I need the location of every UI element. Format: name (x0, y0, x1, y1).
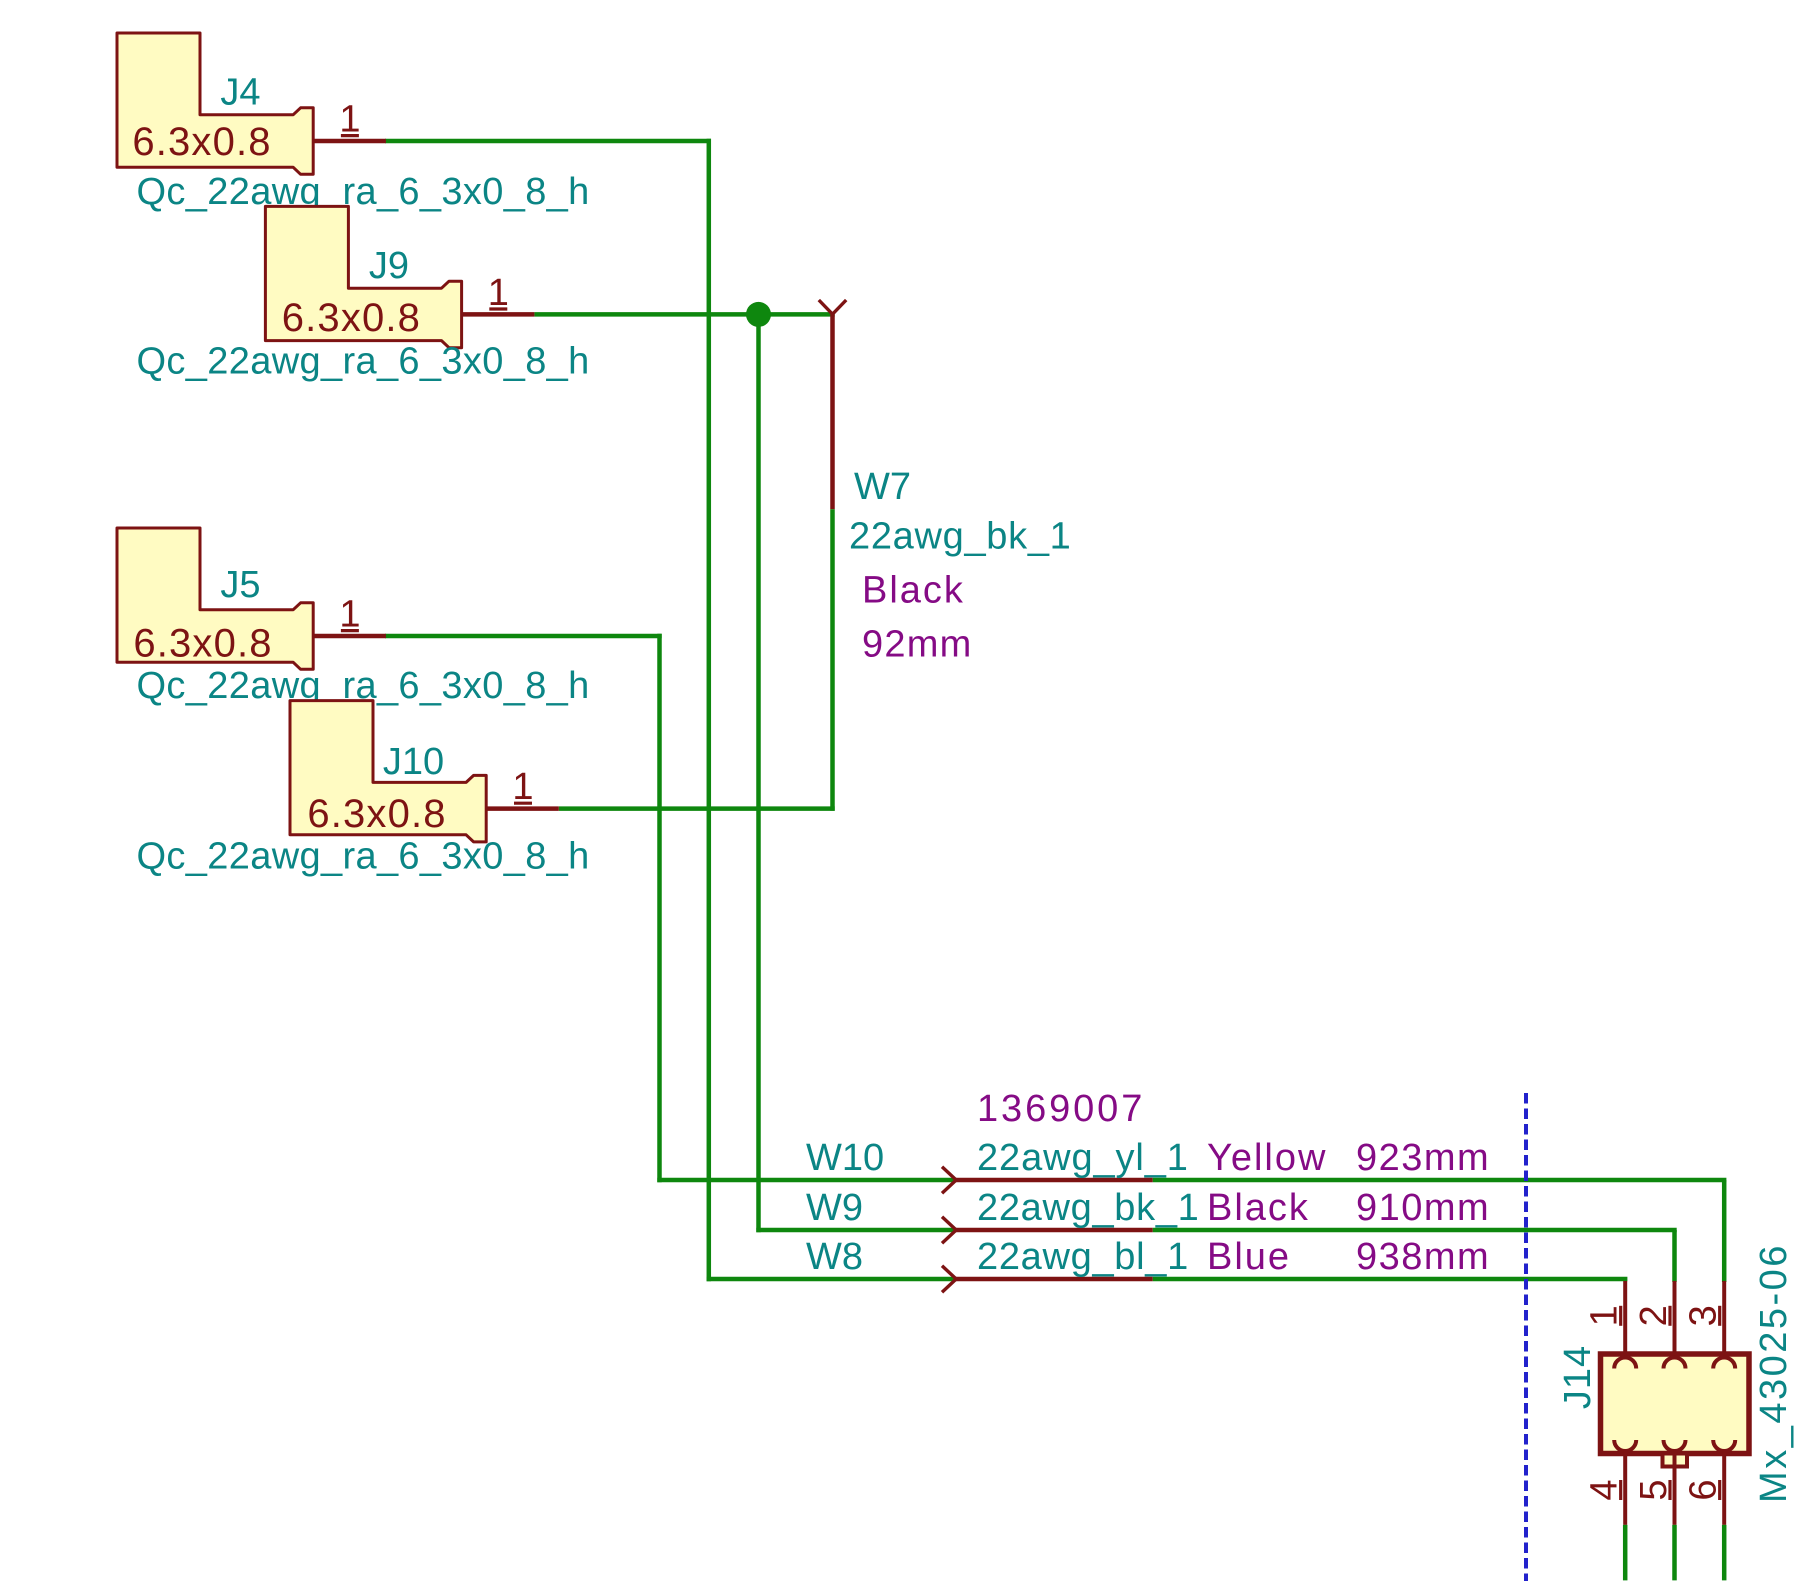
connector J14 pin2 red vertical (1673, 1281, 1677, 1358)
J14 pin number 1 underline (1619, 1306, 1622, 1326)
J14 pin number 6 underline (1718, 1480, 1721, 1500)
connector J10 body (290, 701, 486, 842)
J9 pin pigtail red (462, 312, 535, 317)
svg-text:92mm: 92mm (862, 623, 973, 665)
svg-text:22awg_yl_1: 22awg_yl_1 (977, 1137, 1189, 1179)
wire end marker W8 (942, 1266, 956, 1292)
svg-text:6.3x0.8: 6.3x0.8 (133, 622, 272, 666)
svg-text:938mm: 938mm (1356, 1236, 1490, 1278)
svg-text:Yellow: Yellow (1207, 1137, 1327, 1179)
wire J4 pin1 horizontal (385, 139, 711, 144)
connector J14 pin4 red vertical (1623, 1451, 1627, 1525)
svg-text:910mm: 910mm (1356, 1187, 1490, 1229)
J14 pin number 2 underline (1668, 1306, 1671, 1326)
wire W10 red segment (955, 1178, 1153, 1183)
wire W9 horizontal right green (1153, 1228, 1677, 1233)
svg-text:Mx_43025-06: Mx_43025-06 (1753, 1243, 1795, 1503)
wire J14 pin2 vertical green (1672, 1230, 1677, 1282)
svg-text:6.3x0.8: 6.3x0.8 (132, 120, 271, 164)
J14 pin number 4 underline (1619, 1480, 1622, 1500)
svg-text:J5: J5 (220, 564, 260, 606)
wire end marker W7 (819, 300, 846, 314)
svg-text:Blue: Blue (1207, 1236, 1291, 1278)
wire end marker W9 (942, 1217, 956, 1243)
connector J14 body (1601, 1354, 1750, 1454)
wire W8 horizontal right green (1153, 1277, 1628, 1282)
J14 pin4 socket arc (1614, 1440, 1636, 1451)
wire J14 pin5 green vertical (1672, 1525, 1677, 1581)
svg-text:W10: W10 (806, 1137, 884, 1179)
connector J5 body (117, 528, 313, 669)
svg-text:J4: J4 (220, 72, 260, 114)
wire J9 pin1 horizontal (534, 312, 834, 317)
J10 pin pigtail red (486, 806, 559, 811)
wire J10 pin1 horizontal green (559, 806, 835, 811)
wire W7 green vertical (830, 509, 835, 811)
svg-text:6.3x0.8: 6.3x0.8 (307, 792, 446, 836)
svg-text:Black: Black (862, 570, 965, 612)
junction dot (746, 302, 771, 327)
svg-text:Qc_22awg_ra_6_3x0_8_h: Qc_22awg_ra_6_3x0_8_h (137, 836, 590, 878)
wire junction vertical down to W9 (756, 314, 761, 1232)
svg-text:J10: J10 (383, 741, 444, 783)
wire W9 red segment (955, 1228, 1153, 1233)
harness boundary dashed line (1524, 1093, 1528, 1581)
J14 pin3 socket arc (1713, 1358, 1735, 1369)
svg-text:923mm: 923mm (1356, 1137, 1490, 1179)
svg-text:22awg_bk_1: 22awg_bk_1 (849, 516, 1072, 558)
J14 pin5 polarization notch (1663, 1454, 1688, 1467)
J9 pin number underline (489, 307, 507, 310)
J5 pin pigtail red (313, 634, 386, 639)
wire J14 pin6 green vertical (1722, 1525, 1727, 1581)
svg-text:22awg_bk_1: 22awg_bk_1 (977, 1187, 1200, 1229)
J14 pin number 3 underline (1718, 1306, 1721, 1326)
J10 pin number underline (514, 802, 532, 805)
connector J4 body (117, 33, 313, 174)
wire J14 pin4 green vertical (1623, 1525, 1628, 1581)
wire W10 horizontal left green (657, 1178, 956, 1183)
J14 pin6 socket arc (1713, 1440, 1735, 1451)
svg-text:22awg_bl_1: 22awg_bl_1 (977, 1236, 1189, 1278)
wire J4 vertical down to W8 (707, 139, 712, 1281)
J4 pin pigtail red (313, 139, 386, 144)
connector J14 pin1 red vertical (1623, 1281, 1627, 1358)
wire W9 horizontal left green (756, 1228, 956, 1233)
connector J14 pin6 red vertical (1722, 1451, 1726, 1525)
svg-text:Qc_22awg_ra_6_3x0_8_h: Qc_22awg_ra_6_3x0_8_h (137, 171, 590, 213)
J5 pin number underline (341, 629, 359, 632)
J14 pin number 5 underline (1668, 1480, 1671, 1500)
wire W10 horizontal right green (1153, 1178, 1727, 1183)
connector J14 pin5 red vertical (1673, 1451, 1677, 1525)
svg-text:J9: J9 (369, 245, 409, 287)
wire J14 pin3 vertical green (1722, 1180, 1727, 1282)
svg-text:W9: W9 (806, 1187, 863, 1229)
svg-text:W8: W8 (806, 1236, 863, 1278)
connector J14 pin3 red vertical (1722, 1281, 1726, 1358)
J4 pin number underline (341, 134, 359, 137)
wire J5 pin1 horizontal (385, 634, 662, 639)
wire W7 red vertical (830, 314, 835, 509)
svg-text:W7: W7 (854, 466, 911, 508)
svg-text:Qc_22awg_ra_6_3x0_8_h: Qc_22awg_ra_6_3x0_8_h (137, 341, 590, 383)
wire W8 red segment (955, 1277, 1153, 1282)
connector J9 body (265, 206, 461, 347)
svg-text:J14: J14 (1557, 1345, 1599, 1409)
J14 pin5 socket arc (1664, 1440, 1686, 1451)
svg-text:Black: Black (1207, 1187, 1310, 1229)
wire J5 vertical down to W10 (657, 634, 662, 1182)
svg-text:6.3x0.8: 6.3x0.8 (282, 296, 421, 340)
wire W8 horizontal left green (707, 1277, 956, 1282)
J14 pin1 socket arc (1614, 1358, 1636, 1369)
wire end marker W10 (942, 1167, 956, 1193)
svg-text:1369007: 1369007 (977, 1088, 1145, 1130)
J14 pin2 socket arc (1664, 1358, 1686, 1369)
